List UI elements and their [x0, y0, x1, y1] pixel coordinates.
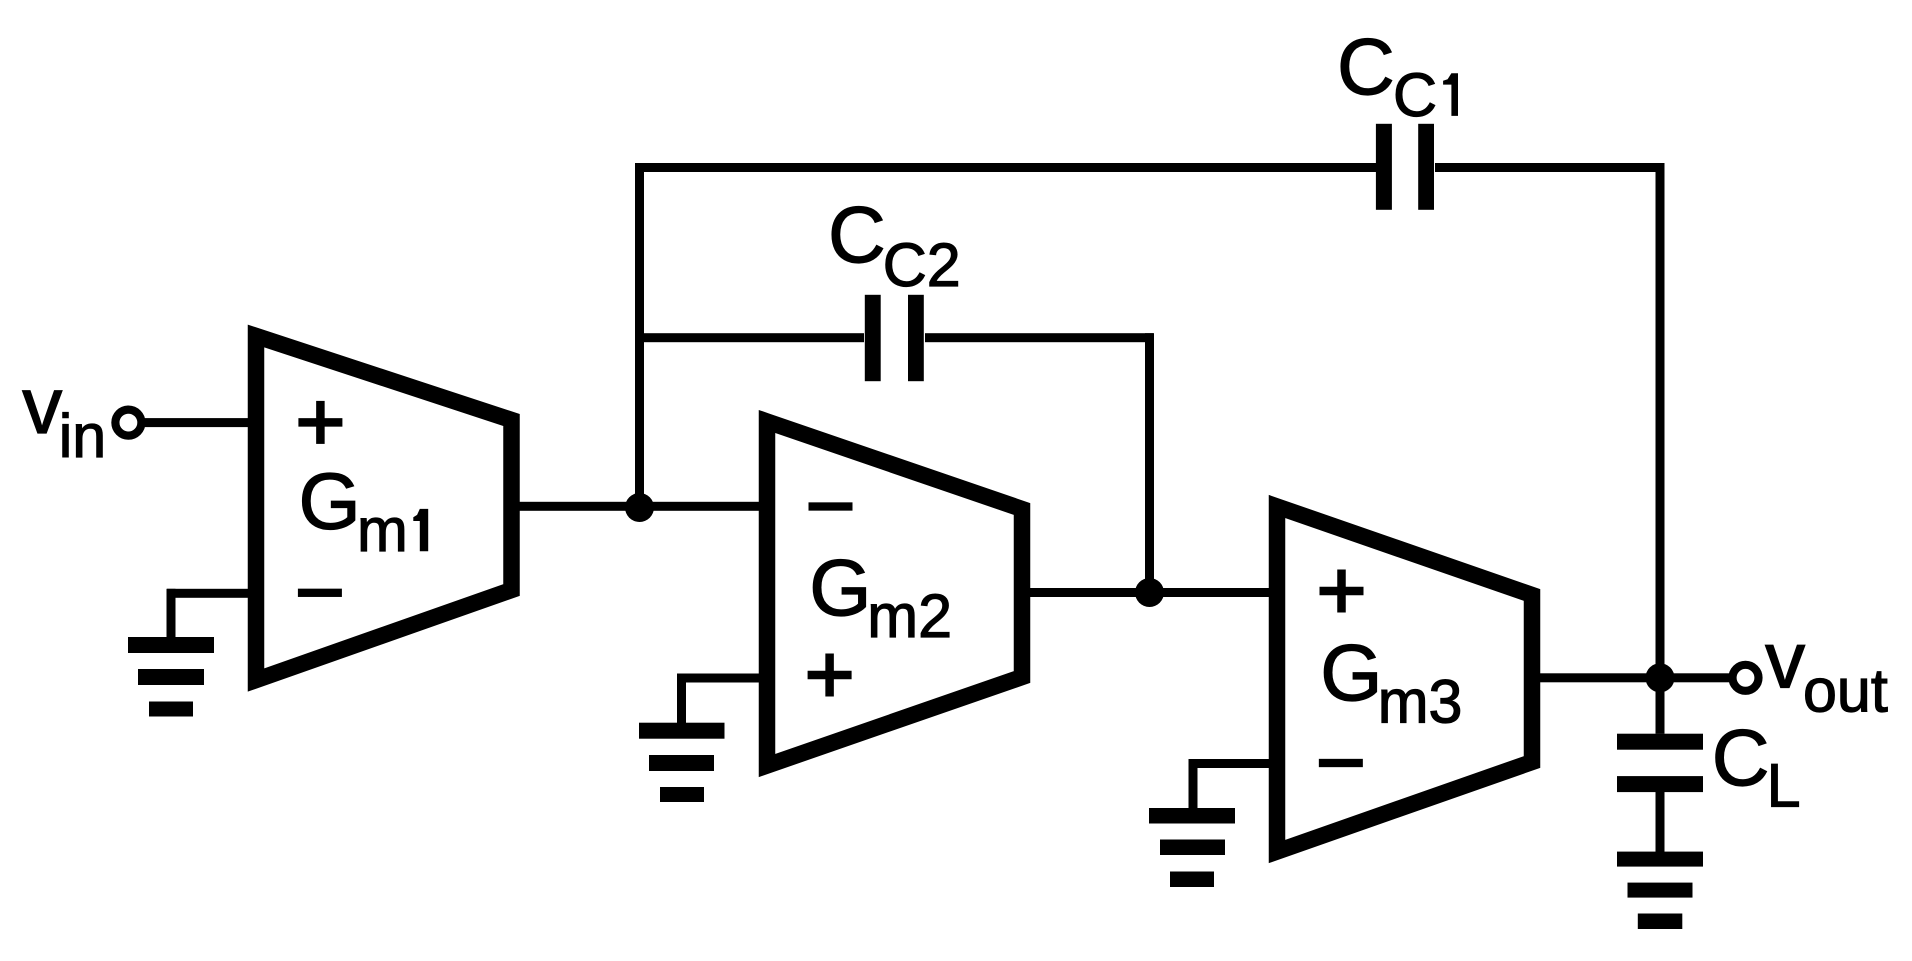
op-amp U1 plus pin marker	[298, 401, 342, 444]
wire CC2 feedback left segment	[635, 333, 864, 342]
svg-text:C: C	[1393, 61, 1437, 129]
wire CC2 right segment down to Gm2 output node	[925, 333, 1154, 592]
ground G1 (Gm1 minus)	[128, 637, 214, 717]
wire Gm1 minus input to ground	[167, 589, 259, 638]
wire Gm3 output to vout terminal	[1528, 673, 1731, 682]
op-amp U3 Gm3 body	[1277, 507, 1532, 852]
op-amp U2 label Gm2	[809, 543, 952, 650]
svg-text:G: G	[299, 457, 361, 546]
wire Gm2 plus input to ground	[677, 674, 771, 724]
ground G3 (Gm3 minus)	[1149, 808, 1235, 887]
svg-text:L: L	[1767, 752, 1801, 820]
wire node A up to feedback lines	[635, 163, 644, 508]
ground G2 (Gm2 plus)	[639, 723, 725, 802]
node vin label	[22, 361, 106, 470]
wire output node down to CL	[1656, 678, 1665, 734]
svg-text:m3: m3	[1378, 668, 1463, 736]
svg-text:C: C	[828, 190, 886, 279]
capacitor CL label	[1712, 713, 1801, 820]
svg-text:v: v	[1765, 616, 1805, 705]
op-amp U3 label Gm3	[1320, 628, 1462, 736]
wire Gm2 output to Gm3 plus input	[1018, 588, 1281, 597]
op-amp U3 plus pin marker	[1320, 570, 1364, 613]
wire top feedback left segment (to CC1)	[635, 163, 1376, 172]
wire Gm1 output to Gm2 minus input	[508, 502, 772, 511]
op-amp U2 minus pin marker	[809, 502, 853, 510]
op-amp U1 label Gm1	[299, 457, 429, 565]
wire top feedback right segment down to vout node	[1435, 163, 1665, 678]
terminal vin	[115, 410, 141, 436]
op-amp U2 plus pin marker	[808, 654, 852, 697]
ground G4 (CL)	[1617, 852, 1703, 929]
svg-text:C: C	[1712, 713, 1770, 802]
capacitor C_C2 plates	[865, 295, 924, 381]
op-amp U1 minus pin marker	[298, 589, 342, 597]
svg-text:m2: m2	[867, 582, 952, 650]
svg-text:out: out	[1803, 657, 1888, 725]
wire vin to Gm1 + input	[141, 418, 258, 427]
node B junction dot	[1135, 578, 1164, 607]
capacitor C_C1 label	[1337, 22, 1458, 129]
svg-text:C: C	[1337, 22, 1395, 111]
svg-text:G: G	[1320, 628, 1382, 717]
svg-text:C2: C2	[883, 231, 961, 299]
op-amp U3 minus pin marker	[1319, 759, 1363, 767]
svg-text:in: in	[59, 402, 106, 470]
op-amp U2 Gm2 body	[767, 422, 1022, 766]
wire CL bottom plate to ground	[1656, 792, 1665, 852]
node vout label	[1765, 616, 1888, 725]
op-amp U1 Gm1 body	[256, 336, 512, 680]
node A junction dot	[625, 493, 654, 522]
wire Gm3 minus input to ground	[1189, 759, 1282, 808]
node C junction dot (output node)	[1646, 663, 1675, 692]
terminal vout	[1733, 665, 1759, 691]
capacitor C_C1 plates	[1376, 124, 1434, 210]
svg-text:G: G	[809, 543, 871, 632]
svg-text:m: m	[357, 496, 408, 564]
svg-text:v: v	[22, 361, 62, 450]
capacitor C_C2 label	[828, 190, 961, 299]
capacitor CL plates	[1617, 734, 1703, 792]
